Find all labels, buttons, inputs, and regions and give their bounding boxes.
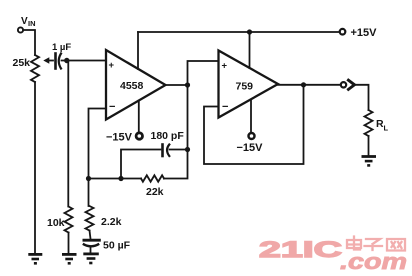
- svg-text:759: 759: [236, 81, 254, 93]
- svg-text:−: −: [109, 101, 115, 113]
- wire node A branch to 2.2k: [88, 179, 90, 207]
- svg-text:−15V: −15V: [106, 131, 133, 143]
- wire U1 V- down: [138, 101, 140, 133]
- label 1uF: [52, 42, 71, 53]
- wire U1 minus input to feedback node: [89, 109, 107, 179]
- wire U2 V+ to rail: [249, 32, 251, 68]
- wire U2 feedback loop: [204, 85, 304, 164]
- op-amp U2 759: [219, 51, 279, 118]
- label +15V: [351, 27, 378, 39]
- label 180pF: [151, 130, 185, 142]
- label 50uF: [103, 240, 131, 252]
- label op-amp U2 minus input: [222, 101, 228, 113]
- node cap output dot: [185, 147, 190, 152]
- svg-text:4558: 4558: [120, 80, 144, 92]
- watermark chinese glyphs: [347, 237, 405, 251]
- wire wiper to C1: [49, 60, 54, 62]
- resistor R4 22k: [141, 175, 164, 181]
- ground for pot: [28, 254, 42, 263]
- wire 10k to ground: [68, 233, 70, 254]
- node VIN terminal: [18, 27, 23, 32]
- resistor R2 10k: [65, 207, 73, 233]
- wire U2 V- down: [250, 100, 252, 133]
- svg-text:+15V: +15V: [351, 27, 378, 39]
- svg-text:−15V: −15V: [237, 142, 264, 154]
- capacitor C2 50uF: [83, 240, 101, 246]
- label -15V for U1: [106, 131, 133, 143]
- svg-text:50 µF: 50 µF: [103, 240, 131, 252]
- wire 2.2k to C2: [90, 231, 91, 239]
- resistor R1 25k potentiometer: [31, 55, 39, 82]
- wire cap to output vertical: [170, 149, 188, 151]
- svg-text:22k: 22k: [146, 186, 164, 198]
- svg-text:+: +: [109, 60, 115, 71]
- op-amp U1 4558: [106, 50, 166, 120]
- svg-text:25k: 25k: [13, 57, 31, 69]
- label 10k: [47, 217, 65, 229]
- svg-text:21IC: 21IC: [259, 237, 342, 262]
- resistor RL: [365, 110, 373, 136]
- wire jack to RL: [356, 85, 369, 110]
- node U1 output dot: [185, 82, 190, 87]
- node U2 output dot: [301, 82, 306, 87]
- label -15V for U2: [237, 142, 264, 154]
- output jack chevron: [348, 80, 354, 89]
- wire pot bottom to ground: [34, 82, 36, 253]
- wire 22k to output branch: [164, 85, 188, 179]
- svg-text:2.2k: 2.2k: [101, 216, 122, 228]
- resistor R3 2.2k: [86, 206, 94, 231]
- svg-text:.com: .com: [340, 249, 407, 274]
- wire U1 output to U2 + input: [188, 61, 219, 85]
- label op-amp U1 plus input: [109, 60, 115, 71]
- capacitor C1 1uF: [56, 54, 62, 69]
- label 4558: [120, 80, 144, 92]
- svg-text:10k: 10k: [47, 217, 65, 229]
- wire C2 to ground: [90, 248, 92, 253]
- wire +15V rail: [138, 31, 340, 33]
- label op-amp U1 minus input: [109, 101, 115, 113]
- wire node A down to 10k: [67, 61, 69, 207]
- watermark 21IC: [259, 237, 342, 262]
- capacitor C3 180pF: [163, 145, 170, 157]
- ground for C2: [83, 254, 99, 263]
- wire VIN to pot top: [23, 30, 35, 55]
- wire feedback row: [89, 178, 142, 180]
- svg-text:+: +: [222, 61, 228, 72]
- node rail dot for U2 supply: [247, 29, 252, 34]
- node feedback junction dot: [86, 176, 91, 181]
- svg-text:180 pF: 180 pF: [151, 130, 185, 142]
- watermark dot com script: [340, 249, 407, 274]
- node -15V terminal U1: [136, 133, 142, 139]
- svg-text:IN: IN: [28, 19, 36, 28]
- label 2.2k: [101, 216, 122, 228]
- wire cap branch up: [121, 150, 161, 179]
- label VIN: [21, 16, 36, 28]
- node +15V terminal: [340, 29, 346, 35]
- node -15V terminal U2: [249, 133, 255, 139]
- ground for RL: [362, 157, 377, 166]
- svg-text:1 µF: 1 µF: [52, 42, 71, 53]
- pot wiper arrow: [43, 57, 49, 63]
- wire U1 output: [166, 84, 188, 86]
- wire C1 to opamp + input: [62, 60, 107, 62]
- wire U2 output: [278, 84, 341, 86]
- ground for 10k: [62, 254, 77, 263]
- label 25k: [13, 57, 31, 69]
- svg-text:L: L: [384, 124, 389, 133]
- svg-text:V: V: [21, 16, 28, 27]
- node junction dot A: [64, 58, 69, 63]
- wire U1 V+ to +15V rail: [137, 32, 139, 69]
- label 22k: [146, 186, 164, 198]
- label 759: [236, 81, 254, 93]
- wire RL to ground: [368, 136, 370, 155]
- svg-text:−: −: [222, 101, 228, 113]
- label op-amp U2 plus input: [222, 61, 228, 72]
- output jack circle: [341, 82, 346, 87]
- label RL: [376, 118, 389, 133]
- node cap branch dot: [118, 176, 123, 181]
